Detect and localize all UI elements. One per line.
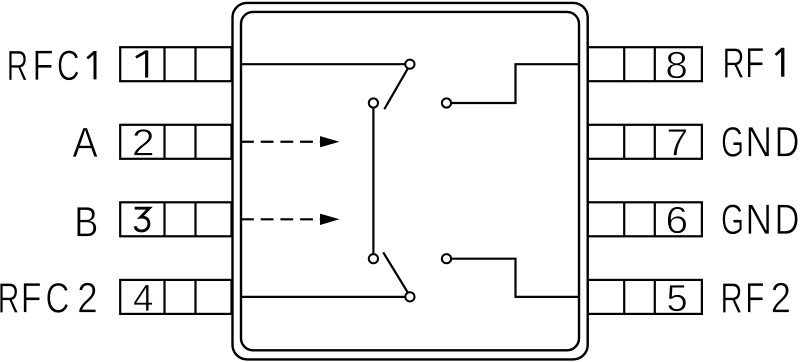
IC package body U1 xyxy=(233,3,588,360)
net label GND pin 7 xyxy=(721,118,799,166)
svg-text:F: F xyxy=(21,275,42,322)
pin 6 number xyxy=(665,199,688,242)
svg-text:A: A xyxy=(72,119,98,166)
control arrow B head xyxy=(320,214,340,225)
svg-text:F: F xyxy=(745,39,764,87)
wire common pole vertical xyxy=(372,103,374,259)
svg-text:R: R xyxy=(7,42,29,89)
pin 7 number xyxy=(666,122,688,164)
net label RFC1 xyxy=(7,41,95,89)
switch arm lower xyxy=(383,252,409,294)
svg-text:R: R xyxy=(722,39,744,87)
net label GND pin 6 xyxy=(721,196,799,244)
pin 4 number xyxy=(133,276,153,319)
control arrow A head xyxy=(320,136,340,147)
wire RF2 stepped connection xyxy=(447,259,579,297)
svg-text:2: 2 xyxy=(132,122,155,165)
svg-text:F: F xyxy=(33,43,54,90)
svg-text:N: N xyxy=(745,197,772,244)
pin 8 box xyxy=(588,47,702,81)
wire RFC2 to lower throw contact xyxy=(241,296,407,298)
svg-text:B: B xyxy=(74,199,98,246)
RF2 contact circle xyxy=(442,254,451,263)
svg-text:D: D xyxy=(775,197,800,244)
pin 7 box xyxy=(588,125,702,159)
svg-text:C: C xyxy=(57,41,80,89)
pin 1 number xyxy=(136,50,147,77)
net label RFC2 xyxy=(0,275,98,323)
svg-text:D: D xyxy=(775,119,800,166)
lower pole contact circle xyxy=(369,254,378,263)
pin 2 number xyxy=(132,122,155,165)
pin 5 box xyxy=(588,280,702,314)
svg-text:N: N xyxy=(745,119,772,166)
pin 4 box xyxy=(120,280,231,314)
pin 1 box xyxy=(120,47,231,81)
upper pole contact circle xyxy=(369,98,378,107)
control wire B dashed xyxy=(241,218,324,220)
svg-text:2: 2 xyxy=(77,275,98,322)
svg-text:2: 2 xyxy=(771,275,791,322)
wire RF1 stepped connection xyxy=(447,64,579,103)
svg-text:4: 4 xyxy=(133,276,153,319)
pin 8 number xyxy=(665,44,687,87)
svg-text:R: R xyxy=(0,275,19,322)
net label B xyxy=(74,199,98,246)
net label RF2 xyxy=(720,274,791,322)
pin 6 box xyxy=(588,202,702,236)
svg-text:7: 7 xyxy=(666,122,688,164)
svg-text:F: F xyxy=(745,274,764,322)
svg-text:R: R xyxy=(720,274,742,322)
svg-text:G: G xyxy=(721,196,744,243)
svg-text:C: C xyxy=(45,276,69,323)
pin 2 box xyxy=(120,125,231,159)
svg-text:5: 5 xyxy=(666,277,687,320)
net label A xyxy=(72,119,98,166)
switch arm upper xyxy=(384,67,408,109)
pin 3 box xyxy=(120,202,231,236)
svg-text:G: G xyxy=(721,118,744,165)
net label RF1 xyxy=(722,39,782,87)
wire RFC1 to upper throw contact xyxy=(241,63,407,65)
upper throw contact circle xyxy=(405,60,414,69)
lower throw contact circle xyxy=(405,292,414,301)
control wire A dashed xyxy=(241,141,324,143)
svg-text:6: 6 xyxy=(665,199,688,242)
RF1 contact circle xyxy=(442,98,451,107)
svg-text:8: 8 xyxy=(665,44,687,87)
pin 5 number xyxy=(666,277,687,320)
pin 3 number xyxy=(135,208,150,231)
